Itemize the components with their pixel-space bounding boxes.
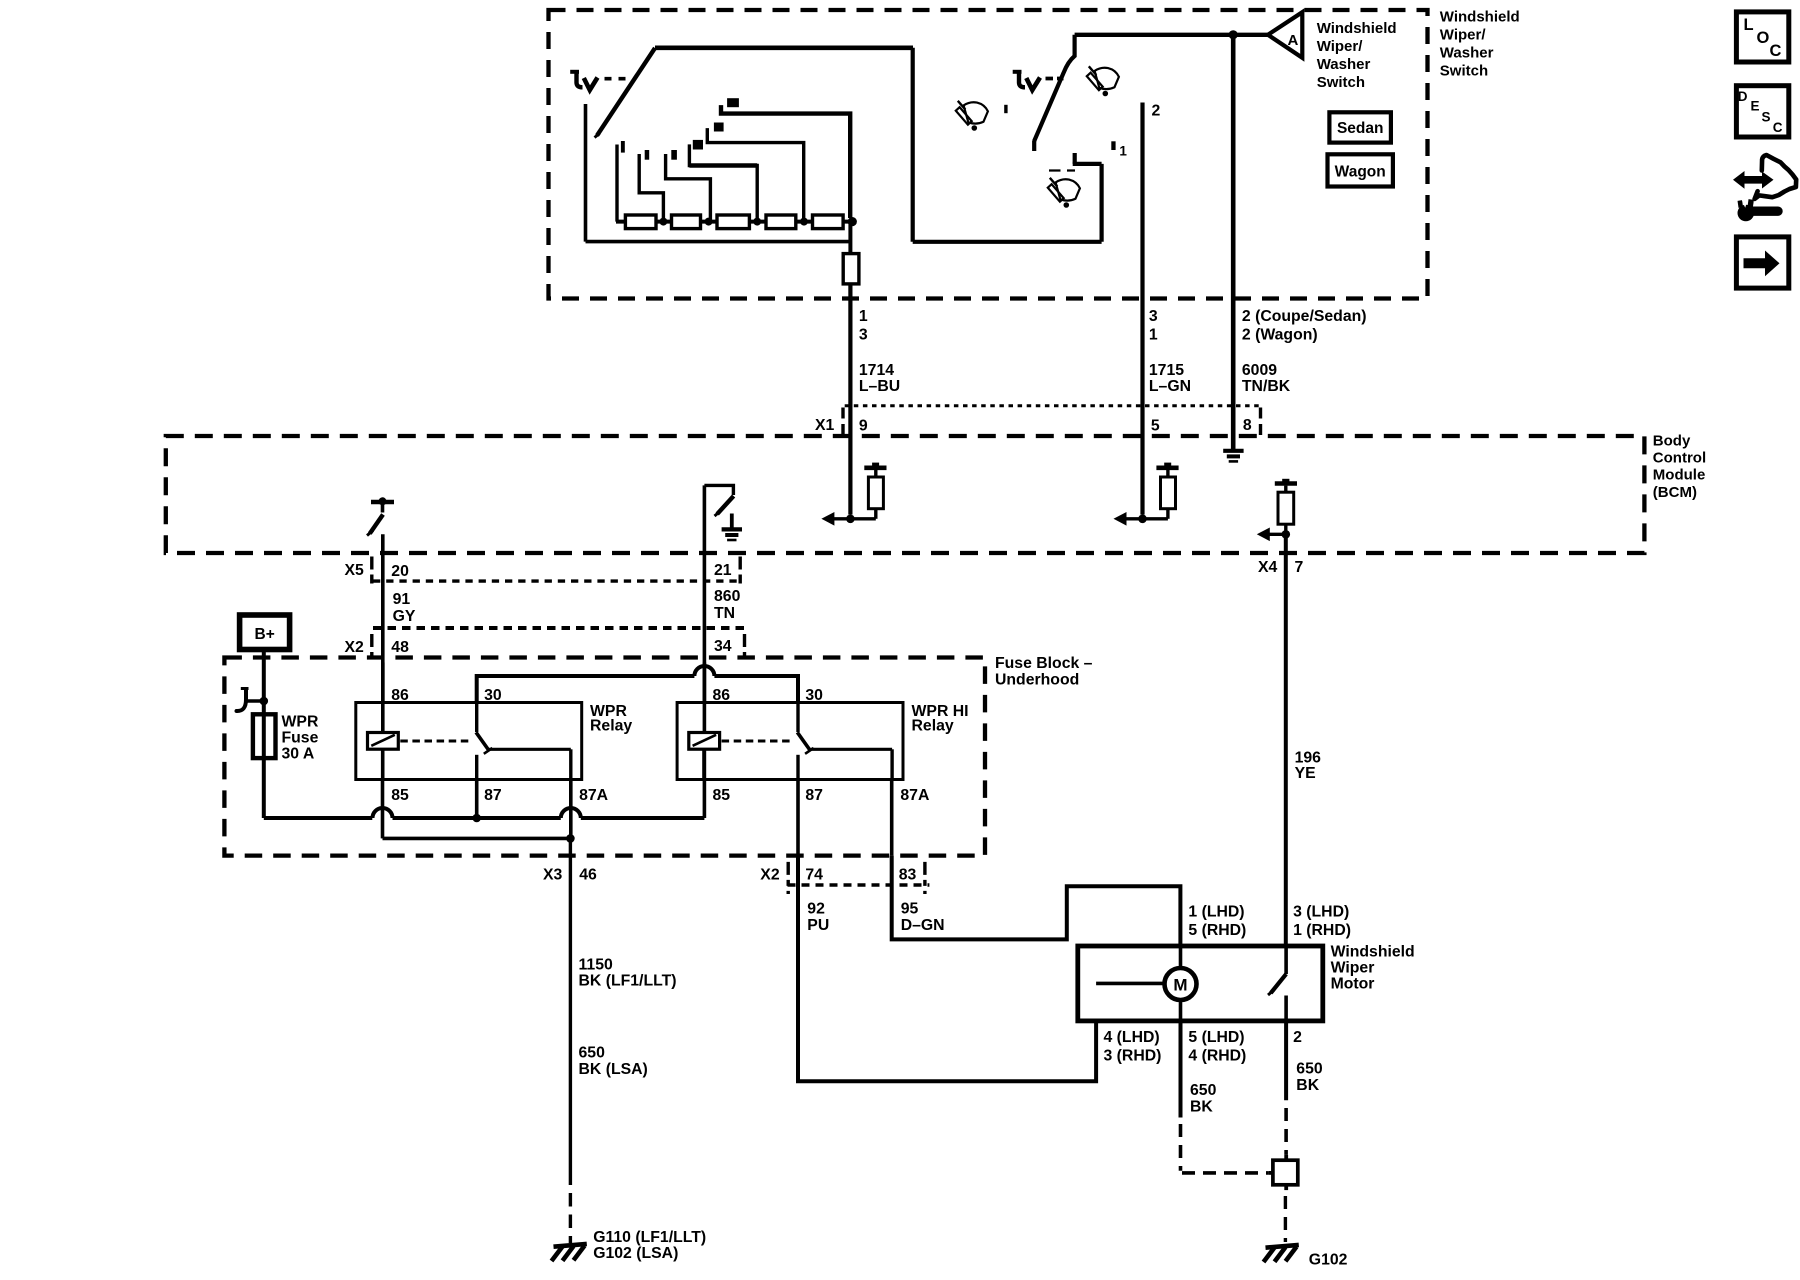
svg-text:A: A xyxy=(1288,32,1299,49)
wire feed to WPR HI 85 xyxy=(703,749,707,818)
wire WPR 87A down xyxy=(569,780,573,839)
resistor R4 xyxy=(766,215,796,229)
svg-text:D: D xyxy=(1738,89,1748,104)
svg-text:Wagon: Wagon xyxy=(1335,164,1386,181)
connector X1 dotted line xyxy=(845,404,1262,407)
svg-text:30: 30 xyxy=(484,687,502,704)
relay WPR pin 30 internal wire xyxy=(475,703,478,733)
connector X5 left bracket xyxy=(370,557,373,586)
svg-text:87A: 87A xyxy=(900,787,929,804)
tap wire position 1 xyxy=(615,145,618,222)
motor internal wire bottom xyxy=(1179,1000,1183,1021)
BCM terminal for 1715 (pull-up resistor and arrow) xyxy=(1138,515,1147,524)
wire WPR HI 87A to X2-83 xyxy=(890,780,894,856)
wire from chain to pin 1 resistor xyxy=(848,222,852,254)
wire 650 BK from motor M xyxy=(1179,1021,1183,1118)
svg-text:30 A: 30 A xyxy=(282,745,315,762)
wire BCM to X5-21 / 860 TN xyxy=(703,485,707,732)
motor pin 2 contact wire xyxy=(1284,996,1288,1021)
motor internal wire top xyxy=(1179,946,1183,968)
icon schematic-navigation curved outline xyxy=(1755,155,1797,199)
svg-text:X3: X3 xyxy=(543,866,563,883)
svg-text:1714: 1714 xyxy=(859,362,894,379)
svg-text:X5: X5 xyxy=(345,562,365,579)
relay WPR coil-armature dashed link xyxy=(400,740,472,743)
wire 1715 L-GN xyxy=(1140,299,1144,515)
wire X2-48 to WPR relay coil xyxy=(381,663,385,733)
svg-text:Underhood: Underhood xyxy=(995,671,1079,688)
wire switch pin 2 xyxy=(1140,103,1144,299)
svg-text:46: 46 xyxy=(579,866,597,883)
contact tick 5 xyxy=(714,123,724,132)
connector X2 dotted line xyxy=(373,626,745,630)
wire WPR HI 87 to X2-74 xyxy=(796,780,800,856)
resistor R5 xyxy=(813,215,844,229)
connector X2 lower dashed line xyxy=(788,883,930,886)
wire junction to X3-46 xyxy=(569,838,572,1185)
relay WPR HI pin 87 internal wire xyxy=(796,755,799,780)
icon schematic-navigation double arrow xyxy=(1733,171,1774,189)
svg-text:WPR: WPR xyxy=(282,714,319,731)
svg-text:87: 87 xyxy=(805,787,823,804)
svg-text:5 (RHD): 5 (RHD) xyxy=(1188,922,1246,939)
junction dot 6009 wire xyxy=(1229,30,1238,39)
Wagon variant box xyxy=(1328,154,1393,186)
Fuse Block - Underhood dashed box xyxy=(224,658,985,856)
svg-text:X2: X2 xyxy=(760,866,780,883)
svg-text:8: 8 xyxy=(1243,417,1252,434)
connector X1 left bracket xyxy=(841,408,844,437)
ground G102 symbol xyxy=(1266,1245,1299,1248)
contact tick low xyxy=(1004,105,1007,113)
resistor R3 xyxy=(717,215,749,229)
connector X2 right bracket xyxy=(743,634,746,663)
wire B+ to fuse xyxy=(262,650,266,819)
relay WPR armature xyxy=(476,732,489,751)
svg-text:D–GN: D–GN xyxy=(901,917,945,934)
wire WPR 87 to feed xyxy=(475,780,479,819)
svg-text:87: 87 xyxy=(484,787,502,804)
delay switch common vertical wire xyxy=(584,104,588,242)
contact tick mist and label 1 xyxy=(1111,141,1115,150)
wire washer contact riser xyxy=(1099,164,1103,242)
BCM internal ground symbol xyxy=(730,514,734,530)
svg-text:86: 86 xyxy=(391,687,409,704)
Body Control Module dashed box xyxy=(166,436,1645,553)
wiper icon washer (dashed) xyxy=(1049,169,1075,171)
tap wire position 4 xyxy=(689,144,757,221)
fuse clip symbol xyxy=(237,689,247,711)
junction dots on chain xyxy=(659,218,667,226)
svg-text:860: 860 xyxy=(714,588,741,605)
motor armature M circle xyxy=(1165,968,1197,1000)
delay switch bottom wire xyxy=(586,240,850,244)
svg-text:2: 2 xyxy=(1152,103,1161,120)
tap wire position 3 xyxy=(666,154,711,222)
svg-text:Switch: Switch xyxy=(1440,63,1488,80)
Sedan variant box xyxy=(1329,112,1391,142)
ground G110/G102 symbol xyxy=(554,1244,587,1247)
contact tick 3 xyxy=(671,150,677,160)
svg-text:Washer: Washer xyxy=(1440,45,1494,62)
wire 92 PU to motor xyxy=(798,856,1096,1082)
svg-text:83: 83 xyxy=(899,866,917,883)
wire 6009 TN/BK xyxy=(1231,35,1236,449)
relay WPR HI contact 87A internal wire xyxy=(811,748,893,751)
svg-text:S: S xyxy=(1762,109,1771,124)
svg-text:6009: 6009 xyxy=(1242,362,1277,379)
motor park switch lever xyxy=(1271,974,1286,993)
svg-text:G102: G102 xyxy=(1309,1252,1348,1269)
icon LOC box xyxy=(1736,12,1788,62)
wire washer-switch left leg xyxy=(911,48,915,242)
svg-text:1: 1 xyxy=(1149,326,1158,343)
svg-text:BK: BK xyxy=(1296,1077,1319,1094)
relay WPR HI armature xyxy=(797,732,810,751)
svg-text:C: C xyxy=(1770,42,1782,60)
resistor R2 xyxy=(672,215,701,229)
svg-text:L–BU: L–BU xyxy=(859,378,900,395)
svg-text:M: M xyxy=(1173,976,1187,995)
svg-text:Fuse: Fuse xyxy=(282,730,319,747)
svg-text:21: 21 xyxy=(714,562,732,579)
svg-text:74: 74 xyxy=(805,866,823,883)
svg-text:Wiper: Wiper xyxy=(1331,959,1375,976)
svg-text:5 (LHD): 5 (LHD) xyxy=(1188,1029,1244,1046)
wire relay 30 to relay 30 link xyxy=(477,676,695,703)
washer contact stub xyxy=(1073,153,1077,164)
svg-text:(BCM): (BCM) xyxy=(1653,484,1697,501)
BCM terminal for 196 YE (resistor and arrow) xyxy=(1282,530,1291,539)
svg-text:Relay: Relay xyxy=(590,718,632,735)
BCM ground for 6009 xyxy=(1223,449,1243,453)
svg-text:E: E xyxy=(1751,99,1760,114)
icon DESC box xyxy=(1736,86,1788,137)
relay WPR HI coil-armature dashed link xyxy=(722,740,794,743)
resistor R1 xyxy=(625,215,656,229)
svg-text:YE: YE xyxy=(1295,765,1316,782)
wire BCM switch to X5-20 xyxy=(381,534,385,732)
relay WPR pin 85 internal wire xyxy=(381,749,385,779)
svg-text:Windshield: Windshield xyxy=(1440,9,1520,26)
svg-text:87A: 87A xyxy=(579,787,608,804)
svg-text:C: C xyxy=(1773,120,1783,135)
motor park switch wire xyxy=(1284,946,1288,974)
svg-text:3 (LHD): 3 (LHD) xyxy=(1293,903,1349,920)
wire 95 D-GN to motor xyxy=(892,856,1181,946)
wire X2-34 to WPR HI relay coil xyxy=(703,663,707,733)
svg-text:2: 2 xyxy=(1293,1029,1302,1046)
fuse feed wire to relays xyxy=(264,816,373,820)
wire 1714 L-BU xyxy=(848,299,852,515)
svg-text:86: 86 xyxy=(713,687,731,704)
svg-text:O: O xyxy=(1757,29,1770,47)
svg-text:B+: B+ xyxy=(255,626,275,643)
relay WPR HI coil xyxy=(689,733,720,750)
wire top feed from lever xyxy=(655,45,913,50)
svg-text:L–GN: L–GN xyxy=(1149,378,1191,395)
relay WPR contact 87A internal wire xyxy=(489,748,571,751)
svg-text:Control: Control xyxy=(1653,450,1706,467)
svg-text:95: 95 xyxy=(901,900,919,917)
relay WPR HI pin 30 internal wire xyxy=(796,703,799,733)
wire WPR 85 down xyxy=(381,780,385,839)
battery feed B+ box xyxy=(240,615,290,650)
contact tick 2 xyxy=(645,150,650,160)
svg-text:92: 92 xyxy=(807,900,825,917)
relay WPR HI pin 85 internal wire xyxy=(702,749,706,779)
contact tick 1 xyxy=(621,141,625,153)
relay WPR coil xyxy=(368,733,399,750)
BCM terminal for 1714 (pull-up resistor and arrow) xyxy=(846,515,855,524)
svg-text:4 (RHD): 4 (RHD) xyxy=(1188,1047,1246,1064)
BCM internal switch (wiper on/off) xyxy=(371,500,394,504)
relay WPR Relay box xyxy=(356,703,582,780)
svg-text:30: 30 xyxy=(805,687,823,704)
wiper icon low speed xyxy=(958,101,966,110)
svg-text:Body: Body xyxy=(1653,432,1691,449)
tap wire position 5 xyxy=(707,128,803,222)
svg-text:3: 3 xyxy=(1149,308,1158,325)
Windshield Wiper/Washer Switch dashed box xyxy=(549,10,1428,299)
svg-text:X1: X1 xyxy=(815,417,835,434)
wire 196 YE below BCM xyxy=(1284,534,1288,946)
delay resistor chain wire xyxy=(616,220,853,224)
svg-text:1 (LHD): 1 (LHD) xyxy=(1188,903,1244,920)
washer switch lever xyxy=(1034,35,1074,141)
connector X2 lower brackets xyxy=(787,862,790,894)
washer switch actuator glyph xyxy=(1013,70,1022,74)
junction dot 87A/85 xyxy=(566,834,575,843)
svg-text:5: 5 xyxy=(1151,418,1160,435)
svg-text:85: 85 xyxy=(391,787,409,804)
svg-text:85: 85 xyxy=(713,787,731,804)
inline connector square (650 BK splice) xyxy=(1273,1160,1298,1185)
svg-text:1 (RHD): 1 (RHD) xyxy=(1293,922,1351,939)
svg-text:PU: PU xyxy=(807,917,829,934)
svg-text:3 (RHD): 3 (RHD) xyxy=(1104,1047,1162,1064)
svg-text:Relay: Relay xyxy=(912,718,954,735)
junction dot at fuse clip xyxy=(246,699,264,702)
svg-text:Windshield: Windshield xyxy=(1317,20,1397,37)
icon wrench xyxy=(1738,205,1755,222)
delay switch actuator glyph xyxy=(570,70,579,74)
svg-text:20: 20 xyxy=(391,563,409,580)
svg-text:3: 3 xyxy=(859,326,868,343)
wire resistor to pin 1 xyxy=(848,284,852,299)
svg-text:650: 650 xyxy=(1190,1082,1217,1099)
svg-text:G110 (LF1/LLT): G110 (LF1/LLT) xyxy=(593,1229,706,1246)
connector X5 right bracket xyxy=(739,557,742,586)
svg-text:48: 48 xyxy=(391,639,409,656)
svg-text:Wiper/: Wiper/ xyxy=(1440,27,1487,44)
svg-text:1: 1 xyxy=(1119,144,1127,159)
svg-text:BK (LF1/LLT): BK (LF1/LLT) xyxy=(579,972,677,989)
svg-text:TN/BK: TN/BK xyxy=(1242,378,1291,395)
wire 650 BK from motor pin 2 xyxy=(1284,1021,1288,1100)
relay WPR pin 87 internal wire xyxy=(475,755,478,780)
svg-text:G102 (LSA): G102 (LSA) xyxy=(593,1245,678,1262)
svg-text:1: 1 xyxy=(859,308,868,325)
svg-text:Fuse Block –: Fuse Block – xyxy=(995,655,1093,672)
motor internal wire left xyxy=(1096,982,1164,986)
svg-text:2 (Coupe/Sedan): 2 (Coupe/Sedan) xyxy=(1242,308,1367,325)
tap wire position 6 (top) xyxy=(721,105,850,218)
wire WPR 85 to 87A junction xyxy=(383,837,571,841)
svg-text:7: 7 xyxy=(1295,559,1304,576)
svg-text:2 (Wagon): 2 (Wagon) xyxy=(1242,326,1318,343)
svg-text:1150: 1150 xyxy=(579,956,613,973)
connector X1 right bracket xyxy=(1259,408,1262,437)
wire washer-switch bottom xyxy=(913,240,1102,244)
connector X5 dotted line xyxy=(373,579,741,582)
wire dashed to ground G110 xyxy=(569,1193,572,1243)
connector X2 left bracket xyxy=(370,634,373,663)
svg-text:Windshield: Windshield xyxy=(1331,943,1415,960)
wire dashed to ground G102 xyxy=(1284,1196,1287,1242)
wiper icon high speed xyxy=(1089,66,1097,75)
Windshield Wiper Motor box xyxy=(1078,946,1323,1021)
svg-text:1715: 1715 xyxy=(1149,362,1184,379)
svg-text:4 (LHD): 4 (LHD) xyxy=(1104,1029,1160,1046)
tap wire position 2 xyxy=(639,154,663,222)
svg-text:L: L xyxy=(1744,16,1754,34)
svg-text:GY: GY xyxy=(393,608,416,625)
svg-text:TN: TN xyxy=(714,605,735,622)
contact tick 4 xyxy=(693,140,703,150)
delay switch actuator dashed link xyxy=(605,77,627,81)
svg-text:X4: X4 xyxy=(1258,559,1278,576)
icon arrow box xyxy=(1736,237,1788,288)
delay switch lever xyxy=(597,48,655,136)
BCM internal ground switch (for 860 TN) xyxy=(704,485,733,495)
svg-text:650: 650 xyxy=(579,1044,606,1061)
resistor in series with pin 1 xyxy=(843,254,859,284)
svg-text:Sedan: Sedan xyxy=(1337,120,1384,137)
svg-text:650: 650 xyxy=(1296,1060,1323,1077)
junction dot WPR 87 xyxy=(472,814,481,823)
contact tick 6 xyxy=(727,98,739,107)
svg-text:Wiper/: Wiper/ xyxy=(1317,38,1364,55)
svg-text:Switch: Switch xyxy=(1317,74,1365,91)
svg-text:X2: X2 xyxy=(345,639,365,656)
svg-text:BK: BK xyxy=(1190,1099,1213,1116)
svg-text:Washer: Washer xyxy=(1317,56,1371,73)
svg-text:34: 34 xyxy=(714,638,732,655)
svg-text:Module: Module xyxy=(1653,467,1706,484)
fuse WPR Fuse 30 A xyxy=(253,714,276,758)
svg-text:Motor: Motor xyxy=(1331,976,1375,993)
svg-text:91: 91 xyxy=(393,591,411,608)
svg-text:BK (LSA): BK (LSA) xyxy=(579,1061,648,1078)
washer switch top wire xyxy=(1075,33,1268,37)
connector triangle A xyxy=(1268,12,1302,58)
washer switch actuator dashed link xyxy=(1046,77,1064,81)
svg-text:9: 9 xyxy=(859,418,868,435)
relay WPR HI Relay box xyxy=(677,703,903,780)
